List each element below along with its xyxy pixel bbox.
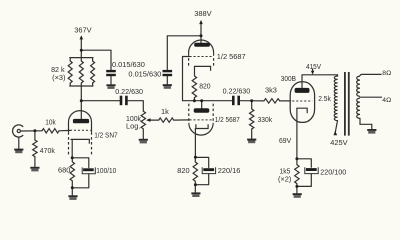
svg-text:425V: 425V bbox=[330, 138, 347, 147]
svg-text:220/100: 220/100 bbox=[320, 168, 346, 177]
svg-text:3k3: 3k3 bbox=[265, 86, 277, 95]
svg-text:330k: 330k bbox=[258, 115, 273, 124]
svg-text:1/2 SN7: 1/2 SN7 bbox=[94, 131, 118, 140]
svg-text:2.5k: 2.5k bbox=[318, 94, 331, 103]
svg-text:0.015/630: 0.015/630 bbox=[128, 70, 161, 79]
svg-text:10k: 10k bbox=[45, 118, 56, 127]
svg-text:4Ω: 4Ω bbox=[382, 97, 391, 104]
svg-text:(×3): (×3) bbox=[52, 73, 65, 82]
svg-text:100/10: 100/10 bbox=[96, 166, 116, 175]
svg-text:388V: 388V bbox=[194, 9, 211, 18]
svg-text:0.22/630: 0.22/630 bbox=[223, 87, 251, 96]
svg-text:8Ω: 8Ω bbox=[382, 70, 391, 77]
svg-text:680: 680 bbox=[58, 165, 70, 174]
svg-text:1/2 5687: 1/2 5687 bbox=[215, 115, 240, 124]
svg-text:Log.: Log. bbox=[126, 121, 140, 130]
svg-text:300B: 300B bbox=[281, 74, 296, 83]
svg-text:(×2): (×2) bbox=[278, 174, 291, 183]
svg-text:0.22/630: 0.22/630 bbox=[115, 87, 143, 96]
svg-text:820: 820 bbox=[199, 81, 210, 90]
svg-text:0.015/630: 0.015/630 bbox=[112, 60, 145, 69]
svg-text:415V: 415V bbox=[306, 62, 321, 71]
svg-text:1/2 5687: 1/2 5687 bbox=[217, 52, 246, 61]
svg-text:220/16: 220/16 bbox=[218, 166, 241, 175]
svg-text:367V: 367V bbox=[74, 25, 91, 34]
svg-text:1k: 1k bbox=[161, 107, 169, 116]
svg-text:470k: 470k bbox=[40, 146, 55, 155]
svg-text:69V: 69V bbox=[279, 136, 291, 145]
svg-text:820: 820 bbox=[177, 166, 189, 175]
